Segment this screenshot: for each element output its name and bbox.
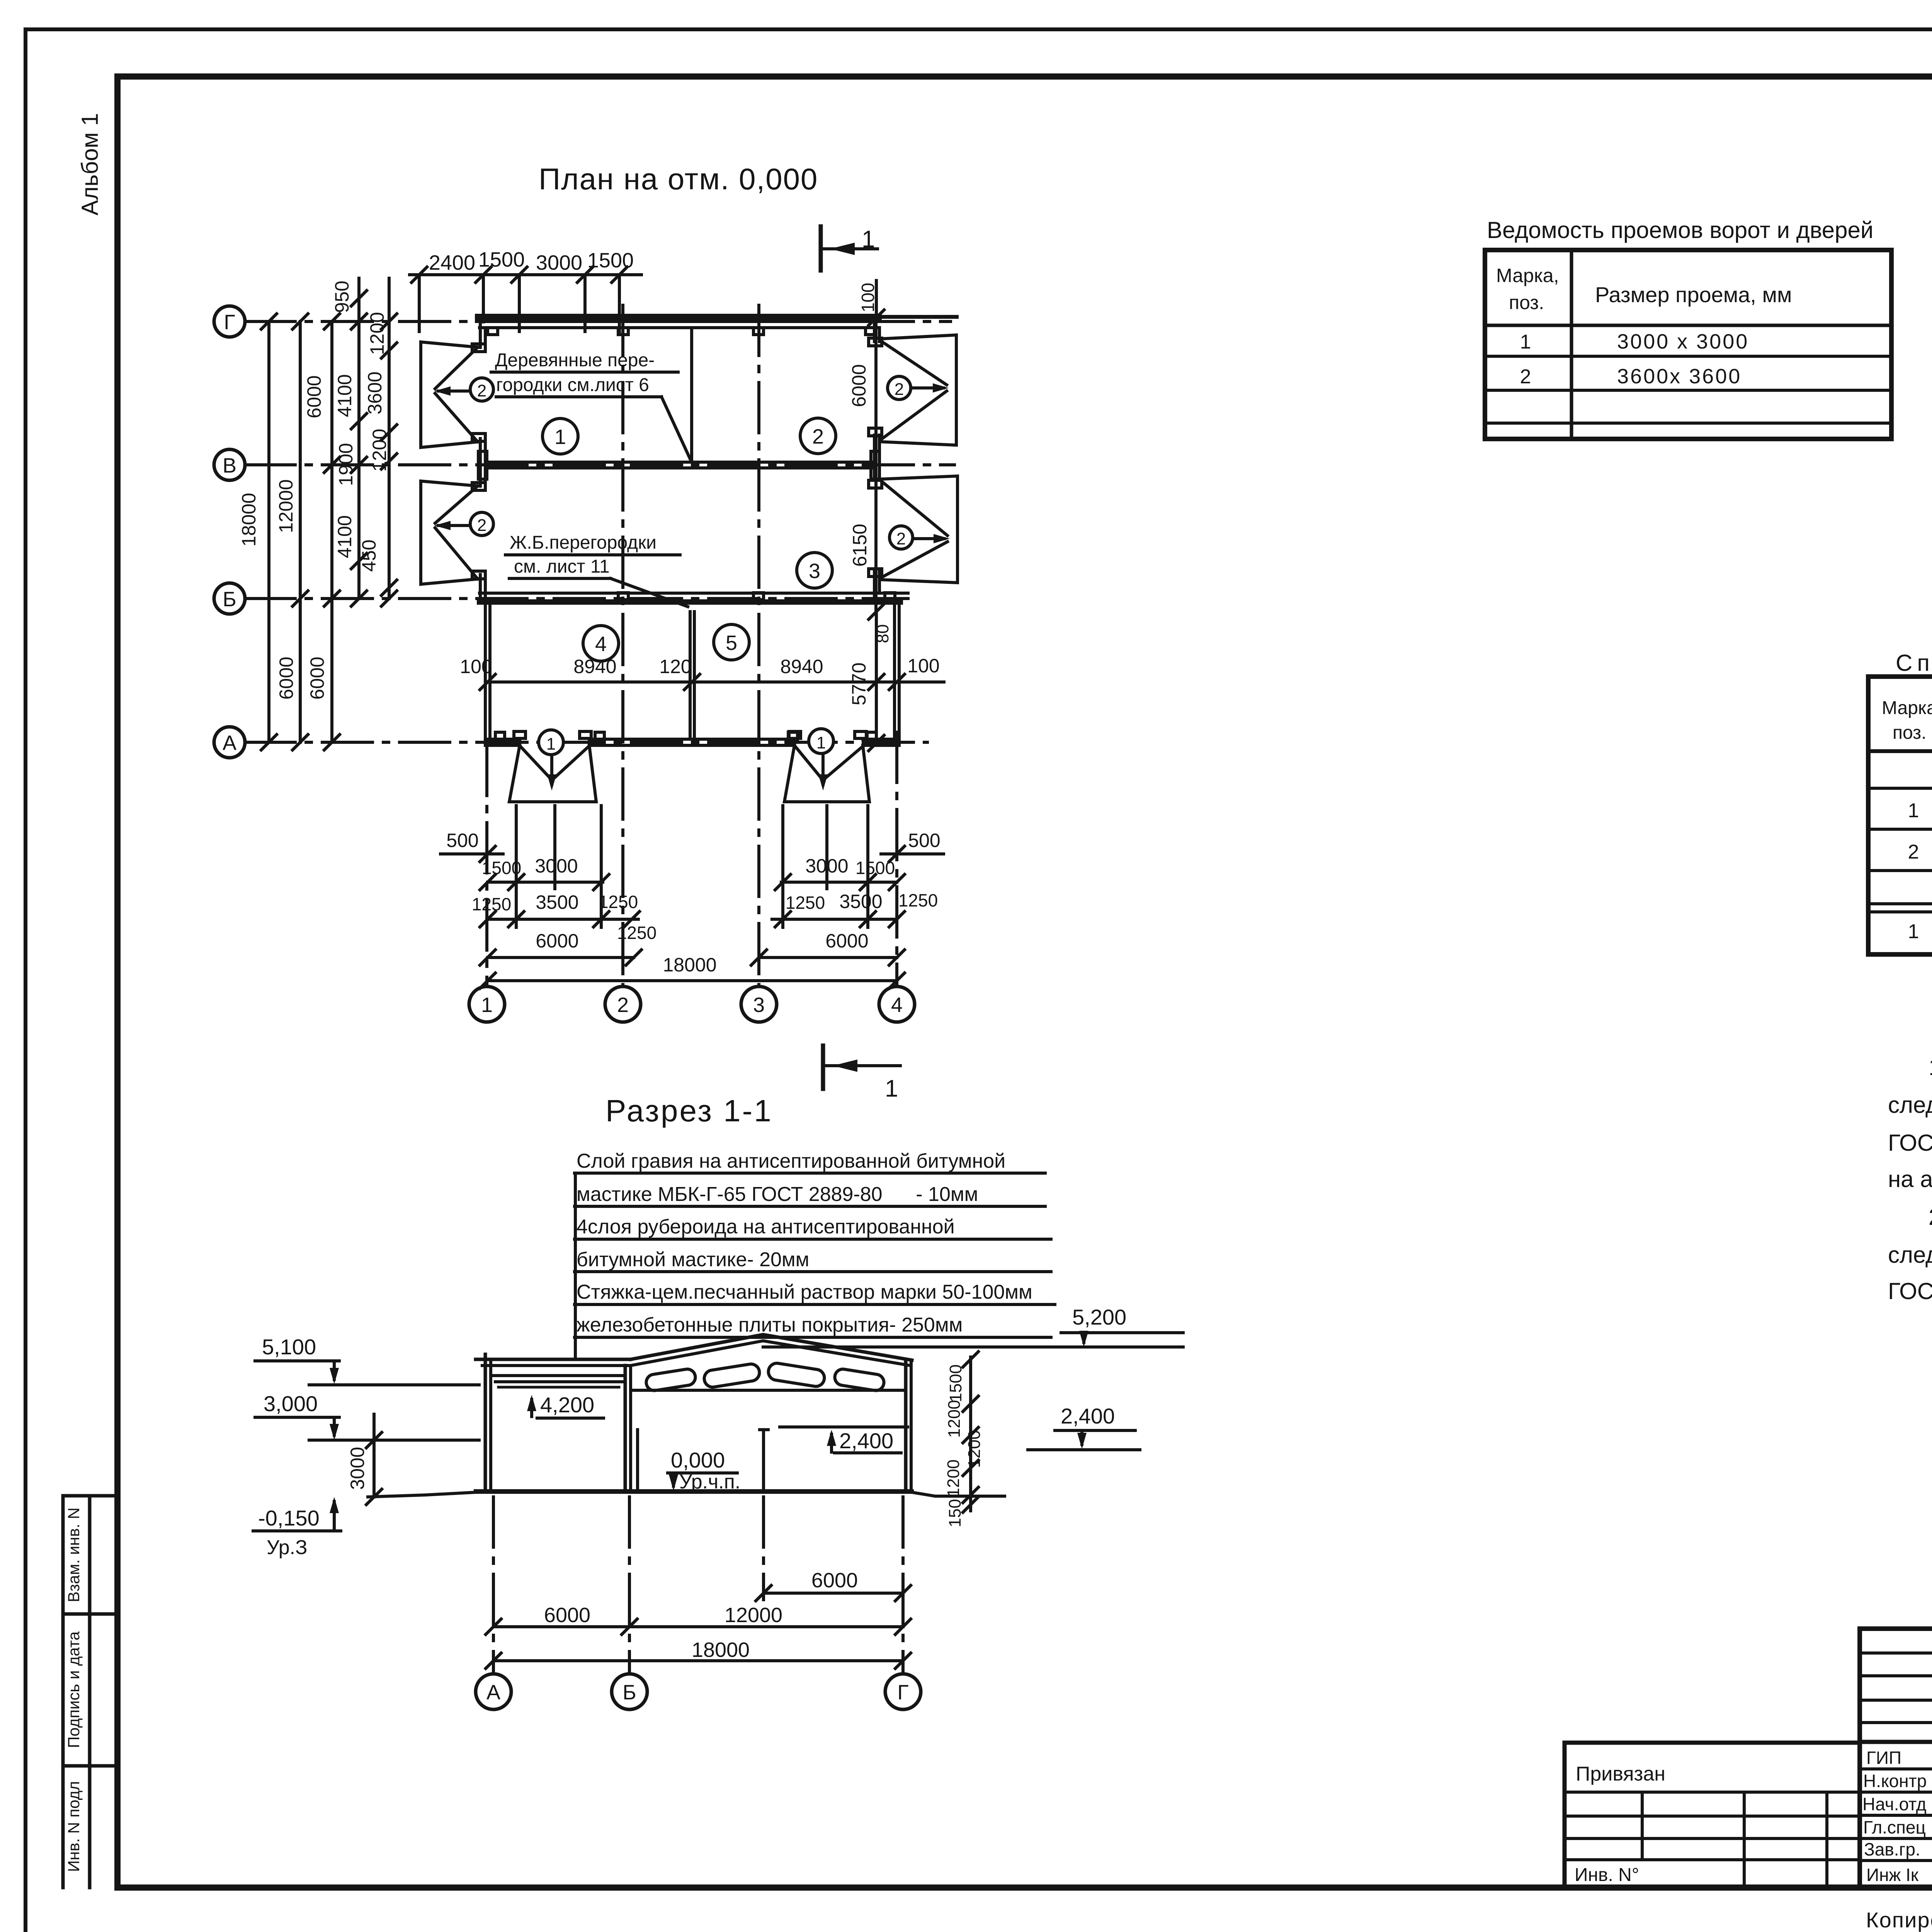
svg-text:2: 2 [895,380,904,399]
svg-text:Размер проема, мм: Размер проема, мм [1595,282,1792,307]
svg-text:5770: 5770 [848,662,870,705]
svg-text:6000: 6000 [544,1604,590,1627]
section bottom axes [493,1497,903,1674]
svg-text:3000: 3000 [535,855,578,877]
axis circle Г [214,306,915,1022]
arrow door east lower [913,537,944,540]
svg-text:3000: 3000 [805,855,848,877]
svg-text:1: 1 [816,733,826,752]
svg-text:2400: 2400 [429,251,475,274]
axis Б line [245,597,908,600]
svg-text:120: 120 [659,656,691,677]
svg-text:Копировал.: Копировал. [1866,1908,1932,1932]
east wall extension line [874,318,878,612]
svg-text:1: 1 [554,425,566,449]
level mark 4,200 [530,1400,533,1417]
svg-text:на антисептированной битумной: на антисептированной битумной мастике. [1888,1166,1932,1192]
svg-text:6000: 6000 [306,656,328,699]
axis circle Б [214,583,245,614]
left dimension chains [269,278,389,742]
svg-text:3,000: 3,000 [264,1391,318,1416]
svg-text:6150: 6150 [849,524,871,566]
gate 2 right (axis А) [784,745,869,802]
svg-text:950: 950 [331,281,353,313]
leader to roof [574,1173,577,1359]
svg-text:1200: 1200 [944,1459,963,1497]
section cut mark top [821,226,878,270]
svg-text:2: 2 [617,993,629,1017]
door jamb blocks [472,338,882,738]
flat roof slab [476,1358,631,1361]
svg-text:3: 3 [753,993,765,1017]
svg-text:2. Для скатной кровли (в осях: 2. Для скатной кровли (в осях Б-Г)принят… [1929,1204,1932,1230]
svg-text:3000: 3000 [536,251,582,274]
section cut mark bottom [823,1046,900,1089]
svg-text:1200: 1200 [369,429,390,471]
svg-text:3500: 3500 [839,891,882,912]
svg-text:1: 1 [1908,799,1919,822]
door mark 2 (east lower) [889,526,913,549]
svg-text:1200: 1200 [366,312,388,355]
right wall [904,1360,908,1491]
svg-text:2: 2 [477,381,486,400]
svg-text:1: 1 [546,735,556,753]
svg-text:3000: 3000 [347,1447,368,1490]
svg-text:500: 500 [908,830,940,851]
svg-text:Б: Б [622,1681,636,1704]
axis circle В [214,449,245,480]
svg-text:6000: 6000 [825,930,868,952]
svg-text:1: 1 [481,993,493,1017]
south wall on axis А [485,738,520,741]
svg-text:городки см.лист 6: городки см.лист 6 [496,375,649,395]
axis 1 line [485,745,488,986]
svg-text:12000: 12000 [724,1604,782,1627]
svg-text:4: 4 [595,633,607,656]
roof layers note [577,1150,1032,1336]
arrow door 2 west [438,524,469,527]
section axis circle Б [612,1674,647,1709]
svg-text:ГОСТ 10923-82 и 3слоя рубероид: ГОСТ 10923-82 и 3слоя рубероида марки РП… [1888,1130,1932,1156]
level mark 2,400 interior [830,1434,833,1452]
svg-text:2: 2 [477,516,486,535]
svg-text:Марка,: Марка, [1496,265,1559,286]
svg-text:Инв. N подл: Инв. N подл [65,1781,83,1872]
svg-text:1500: 1500 [946,1364,965,1402]
room circle 3 [797,553,832,588]
svg-text:5: 5 [726,631,737,655]
svg-text:18000: 18000 [692,1638,750,1662]
axis circle 4 [879,986,915,1022]
svg-text:18000: 18000 [238,493,260,546]
svg-text:6000: 6000 [303,375,325,418]
right part ceiling (bottom chord) [634,1389,906,1392]
svg-text:8940: 8940 [780,656,823,677]
svg-text:3: 3 [809,560,820,583]
east door bay 1 (Г-В) [879,335,956,445]
svg-text:4: 4 [891,993,903,1017]
svg-text:1200: 1200 [965,1430,984,1468]
middle wall axis Б [624,1366,627,1491]
svg-text:3500: 3500 [536,891,578,913]
В axis partition end posts [478,451,879,479]
svg-text:2,400: 2,400 [839,1429,893,1453]
axis В line [245,463,954,466]
top dimension row [410,275,641,332]
axis 4 line [895,732,898,986]
svg-text:Разрез 1-1: Разрез 1-1 [605,1094,773,1128]
svg-text:1: 1 [1908,920,1919,943]
east wall upper block [873,321,876,342]
wood partition between rooms 1 and 2 [690,328,693,462]
svg-text:18000: 18000 [663,954,716,976]
svg-text:Ур.З: Ур.З [267,1536,307,1559]
svg-text:2,400: 2,400 [1061,1404,1115,1428]
attachment table left [1565,1741,1860,1745]
svg-text:Спецификация элементов заполне: Спецификация элементов заполнения проемо… [1896,650,1932,676]
svg-text:Стяжка-цем.песчанный раствор м: Стяжка-цем.песчанный раствор марки 50-10… [577,1281,1032,1303]
room circle 1 [543,418,578,454]
axis circle 3 [741,986,777,1022]
left room ceiling at 4.200 [492,1374,625,1377]
section building outline [368,1335,1005,1497]
west wall lower block [484,602,487,745]
svg-text:Н.контр: Н.контр [1863,1771,1927,1791]
svg-text:5,100: 5,100 [262,1335,316,1359]
gate mark 1 (left) [539,730,563,755]
room circle 5 [714,624,749,660]
svg-text:1250: 1250 [617,923,656,943]
svg-text:1900: 1900 [335,443,357,486]
west wall upper block [479,321,482,347]
svg-text:ГИП: ГИП [1866,1748,1901,1768]
svg-text:Привязан: Привязан [1576,1763,1665,1785]
svg-text:4100: 4100 [334,374,355,417]
section axis circle А [476,1674,511,1709]
svg-text:3000 x 3000: 3000 x 3000 [1617,330,1749,353]
arrow door east upper [912,386,944,389]
room circle 4 [583,626,619,661]
east wall lower block [893,602,896,745]
svg-text:см. лист 11: см. лист 11 [514,556,610,577]
svg-text:4,200: 4,200 [540,1393,594,1417]
svg-text:1500: 1500 [478,248,525,271]
svg-text:А: А [223,731,236,755]
svg-text:1500: 1500 [482,858,521,878]
svg-text:1500: 1500 [855,858,895,878]
axis Г line [245,305,954,986]
svg-text:1. Для плоской кровли (в осях: 1. Для плоской кровли (в осях А-Б)принят… [1929,1054,1932,1080]
svg-text:80: 80 [873,624,892,643]
west door bay 1 (Г-В) [421,342,480,447]
svg-text:0,000: 0,000 [671,1448,725,1472]
svg-text:битумной мастике- 20мм: битумной мастике- 20мм [577,1248,809,1271]
svg-text:Гл.спец: Гл.спец [1863,1817,1926,1837]
svg-text:ГОСТ 10923-82 и 2 слоя руберои: ГОСТ 10923-82 и 2 слоя рубероида марки Р… [1888,1278,1932,1304]
pilaster marks [488,328,895,739]
signature rows [1862,1748,1932,1885]
svg-text:1250: 1250 [786,893,825,913]
svg-text:1250: 1250 [898,890,938,910]
svg-text:6000: 6000 [536,930,578,952]
roof panels [645,1362,885,1392]
axis circle А [214,727,245,758]
svg-text:2: 2 [1908,841,1919,863]
svg-text:500: 500 [446,830,478,851]
ground line [368,1492,1005,1497]
svg-text:1: 1 [1520,331,1531,353]
svg-text:Г: Г [897,1681,908,1704]
svg-text:2: 2 [896,529,906,548]
partition rooms 4/5 [689,612,692,739]
wall on axis Б [480,592,908,595]
axis А line [245,741,927,744]
svg-text:поз.: поз. [1893,723,1927,743]
svg-text:Марка,: Марка, [1882,698,1932,718]
svg-text:поз.: поз. [1509,292,1544,313]
svg-text:1: 1 [862,226,875,253]
svg-text:следующего состава: 1слой рубе: следующего состава: 1слой рубероида марк… [1888,1242,1932,1268]
axis 2 line [621,305,624,986]
chain ticks [261,291,397,750]
svg-text:2: 2 [812,425,824,448]
interior post [762,1430,765,1491]
svg-text:Взам. инв. N: Взам. инв. N [65,1507,83,1602]
door mark 2 (east upper) [888,376,911,400]
left margin strip [63,1496,117,1888]
svg-text:-0,150: -0,150 [258,1506,320,1530]
east door bay 2 (В-Б) [879,476,957,583]
svg-text:150: 150 [946,1499,964,1527]
left wall section [484,1354,487,1491]
svg-text:План на отм. 0,000: План на отм. 0,000 [539,162,818,196]
svg-text:железобетонные плиты покрытия-: железобетонные плиты покрытия- 250мм [577,1314,963,1336]
svg-text:Б: Б [223,588,236,611]
axis circle 1 [469,986,505,1022]
svg-text:5,200: 5,200 [1072,1305,1126,1329]
svg-text:Инв. N°: Инв. N° [1575,1865,1639,1885]
floor line [476,1489,912,1493]
svg-text:Ур.ч.п.: Ур.ч.п. [679,1471,740,1493]
axis circle 2 [605,986,641,1022]
room circle 2 [800,418,836,454]
arrow door 1 west [438,389,469,393]
svg-text:3600x 3600: 3600x 3600 [1617,365,1742,388]
svg-text:1500: 1500 [587,249,634,272]
door mark 2 (west lower) [470,512,493,536]
svg-text:1: 1 [885,1075,898,1102]
svg-text:1200: 1200 [945,1400,964,1438]
svg-text:6000: 6000 [811,1569,858,1592]
svg-text:4100: 4100 [334,515,355,558]
gate 1 left (axis А) [509,745,596,802]
west door bay 2 (В-Б) [421,481,480,584]
right vertical dim chain [969,1357,972,1511]
svg-text:8940: 8940 [573,656,616,677]
svg-text:Деревянные пере-: Деревянные пере- [495,350,655,371]
svg-text:Инж Iк: Инж Iк [1866,1865,1919,1885]
vertical dim 3000 left [372,1414,376,1497]
gate mark 1 (right) [809,729,833,753]
svg-text:100: 100 [460,656,492,677]
svg-text:В: В [223,454,236,477]
svg-text:Нач.отд: Нач.отд [1862,1794,1927,1814]
chain labels [238,281,390,699]
svg-text:Г: Г [224,311,235,334]
svg-text:А: А [486,1681,500,1704]
svg-text:Подпись и дата: Подпись и дата [65,1631,83,1748]
svg-text:4слоя рубероида на антисептиро: 4слоя рубероида на антисептированной [577,1216,955,1238]
section axis circle Г [885,1674,921,1709]
interior dim row 8940 [485,612,944,743]
svg-text:450: 450 [358,539,380,571]
axis 3 line [757,305,760,986]
svg-text:3600: 3600 [364,371,386,414]
svg-text:1250: 1250 [472,894,511,914]
gate dimension rows [440,806,944,981]
svg-text:мастике МБК-Г-65 ГОСТ 2889-80: мастике МБК-Г-65 ГОСТ 2889-80 - 10мм [577,1183,978,1206]
svg-text:следующего состава: 1слой рубе: следующего состава: 1слой рубероида марк… [1888,1092,1932,1118]
svg-text:1250: 1250 [599,892,638,912]
sloped roof [631,1335,912,1360]
svg-text:Альбом 1: Альбом 1 [77,113,103,215]
svg-text:12000: 12000 [275,479,297,533]
svg-text:6000: 6000 [276,656,297,699]
partition on axis В [485,461,874,464]
svg-text:Ж.Б.перегородки: Ж.Б.перегородки [510,532,656,553]
north wall (axis Г) [480,317,957,745]
svg-text:Слой гравия на антисептированн: Слой гравия на антисептированной битумно… [577,1150,1005,1172]
svg-text:2: 2 [1520,366,1531,388]
door mark 2 (west upper) [470,378,493,401]
svg-text:Зав.гр.: Зав.гр. [1864,1839,1920,1859]
svg-text:6000: 6000 [848,364,870,407]
svg-text:100: 100 [907,655,939,677]
svg-text:Ведомость проемов ворот и двер: Ведомость проемов ворот и дверей [1487,217,1873,243]
